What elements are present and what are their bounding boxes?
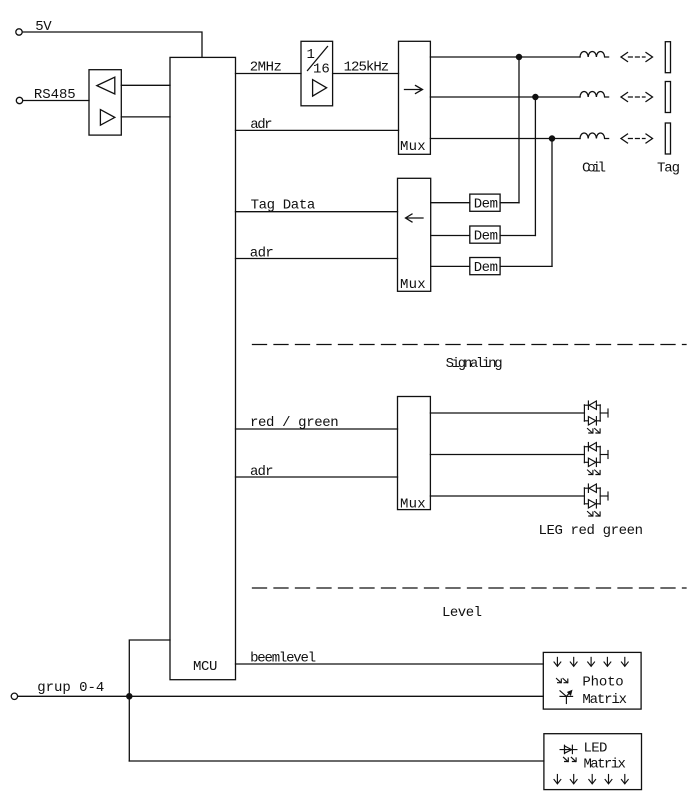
led matrix diode symbol bbox=[560, 745, 577, 753]
mux U4 bbox=[398, 397, 431, 510]
demodulator Dem3 bbox=[470, 258, 500, 275]
terminal RS485 bbox=[16, 97, 22, 103]
node junction line3 bbox=[549, 136, 554, 141]
dashed coupling arrow 3 bbox=[621, 134, 653, 143]
photo matrix box bbox=[543, 652, 641, 709]
svg-text:1: 1 bbox=[307, 47, 315, 63]
node junction line2 bbox=[533, 94, 538, 99]
tag bar 1 bbox=[665, 42, 670, 73]
LED pair D2 bbox=[584, 443, 608, 475]
svg-text:125kHz: 125kHz bbox=[344, 59, 390, 75]
wire beemlevel bbox=[236, 663, 544, 665]
dashed separator Level bbox=[253, 587, 687, 589]
svg-text:adr: adr bbox=[250, 464, 274, 480]
wire junction2 to Dem2 bbox=[534, 100, 536, 236]
wire Tag Data bbox=[236, 211, 398, 213]
svg-text:2MHz: 2MHz bbox=[250, 59, 282, 75]
svg-text:Dem: Dem bbox=[474, 229, 498, 245]
LED pair D3 bbox=[584, 484, 608, 516]
coil L1 bbox=[580, 51, 609, 57]
svg-text:Tag Data: Tag Data bbox=[251, 197, 316, 213]
wire adr (top) bbox=[236, 129, 399, 131]
wire mux4 out 1 bbox=[430, 412, 584, 414]
svg-text:red / green: red / green bbox=[250, 415, 339, 431]
wire mux3 to Dem3 bbox=[431, 265, 470, 267]
demodulator Dem2 bbox=[470, 226, 500, 243]
wire MCU to bottom bus bbox=[129, 640, 170, 761]
wire grup bus bbox=[18, 695, 544, 697]
LED matrix box bbox=[544, 734, 642, 790]
wire Dem2 to junction2 bbox=[500, 235, 535, 237]
wire adr (3rd) bbox=[236, 476, 398, 478]
wire mux3 to Dem2 bbox=[431, 235, 470, 237]
svg-text:Dem: Dem bbox=[474, 197, 498, 213]
led matrix emission arrows bbox=[564, 757, 577, 761]
transceiver U1 bbox=[89, 70, 121, 135]
wire U1 to MCU (rx) bbox=[121, 84, 170, 86]
dashed coupling arrow 1 bbox=[621, 53, 653, 62]
coil L2 bbox=[580, 92, 609, 98]
svg-text:Coil: Coil bbox=[582, 161, 606, 177]
wire 5V to MCU bbox=[22, 32, 202, 57]
wire adr (2nd) bbox=[236, 258, 398, 260]
svg-text:Mux: Mux bbox=[400, 277, 426, 293]
wire 125kHz bbox=[333, 73, 399, 75]
divider 1/16 bbox=[301, 41, 333, 106]
svg-text:LEG red green: LEG red green bbox=[539, 523, 644, 539]
svg-text:adr: adr bbox=[250, 246, 274, 262]
MCU block bbox=[170, 57, 236, 679]
wire coil line 1 bbox=[430, 56, 580, 58]
demodulator Dem1 bbox=[470, 194, 500, 211]
wire 2MHz bbox=[236, 73, 302, 75]
coil L3 bbox=[580, 133, 609, 139]
wire red/green bbox=[236, 428, 398, 430]
tag bar 3 bbox=[665, 123, 670, 154]
wire coil line 3 bbox=[430, 138, 580, 140]
LED pair D1 bbox=[584, 401, 608, 433]
tag bar 2 bbox=[665, 82, 670, 113]
svg-text:Level: Level bbox=[442, 605, 482, 621]
svg-text:LED: LED bbox=[584, 741, 608, 757]
svg-text:Mux: Mux bbox=[400, 139, 426, 155]
svg-text:Signaling: Signaling bbox=[446, 356, 503, 372]
svg-text:adr: adr bbox=[250, 117, 272, 133]
node junction line1 bbox=[516, 54, 521, 59]
svg-text:Dem: Dem bbox=[474, 260, 498, 276]
svg-text:MCU: MCU bbox=[193, 659, 217, 675]
svg-text:beemlevel: beemlevel bbox=[250, 650, 316, 666]
svg-text:Mux: Mux bbox=[400, 496, 426, 512]
svg-text:grup 0-4: grup 0-4 bbox=[37, 680, 104, 696]
dashed coupling arrow 2 bbox=[621, 93, 653, 102]
photo sensor symbol bbox=[560, 691, 573, 704]
svg-text:Matrix: Matrix bbox=[582, 692, 627, 708]
wire mux4 out 3 bbox=[430, 495, 584, 497]
wire coil line 2 bbox=[430, 96, 580, 98]
svg-text:16: 16 bbox=[313, 61, 330, 77]
wire Dem1 to junction1 bbox=[500, 202, 519, 204]
wire Dem3 to junction3 bbox=[500, 265, 552, 267]
wire bottom to LED matrix bbox=[129, 760, 544, 762]
wire junction1 to Dem1 bbox=[518, 60, 520, 203]
wire mux3 to Dem1 bbox=[431, 202, 470, 204]
svg-text:Tag: Tag bbox=[657, 161, 680, 177]
svg-text:Photo: Photo bbox=[582, 675, 623, 691]
wire U1 to MCU (tx) bbox=[121, 116, 170, 118]
svg-text:Matrix: Matrix bbox=[584, 756, 626, 772]
led matrix output arrows bbox=[554, 775, 628, 784]
svg-text:RS485: RS485 bbox=[34, 87, 76, 103]
photo matrix input arrows bbox=[554, 657, 628, 666]
wire mux4 out 2 bbox=[430, 454, 584, 456]
mux U3 bbox=[398, 178, 431, 291]
wire RS485 to transceiver bbox=[23, 100, 89, 102]
wire junction3 to Dem3 bbox=[551, 141, 553, 266]
terminal 5V bbox=[16, 29, 22, 35]
svg-text:5V: 5V bbox=[35, 19, 52, 35]
terminal grup 0-4 bbox=[11, 693, 17, 699]
mux U2 bbox=[399, 41, 431, 154]
dashed separator Signaling bbox=[253, 344, 687, 346]
photo matrix emission arrows bbox=[557, 679, 568, 683]
node junction grup bbox=[127, 694, 132, 699]
